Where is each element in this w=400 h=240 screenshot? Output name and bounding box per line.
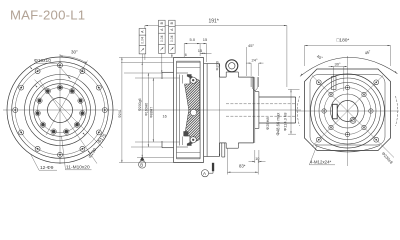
dim 10 xyxy=(249,150,266,163)
square plate outline xyxy=(305,69,391,151)
svg-text:Φ88H7: Φ88H7 xyxy=(149,107,153,118)
svg-text:15: 15 xyxy=(198,48,203,53)
hatched cross-section bottom xyxy=(185,110,200,145)
svg-text:6: 6 xyxy=(185,53,187,57)
svg-text:5.0: 5.0 xyxy=(190,37,196,42)
body right face xyxy=(253,77,255,110)
svg-text:45°: 45° xyxy=(364,49,372,56)
middle sectional view xyxy=(138,58,301,163)
seal wedge bottom xyxy=(187,141,192,145)
right view square flange xyxy=(296,56,399,166)
dim square 180 xyxy=(305,46,391,67)
bottom plug xyxy=(221,143,223,157)
bolt circle 12-phi9 xyxy=(15,65,105,155)
12-phi9 holes xyxy=(13,63,108,158)
dim 45deg xyxy=(246,47,248,76)
centerline horizontal xyxy=(3,109,118,111)
bearing ball top xyxy=(190,77,196,83)
svg-text:Φ48.66 max: Φ48.66 max xyxy=(276,112,281,136)
svg-text:30°: 30° xyxy=(335,61,341,66)
ring faces xyxy=(206,64,208,111)
diagonal centerline TL-BR xyxy=(312,76,394,158)
svg-text:15: 15 xyxy=(203,37,208,42)
small dims 5.0 / 15 top xyxy=(184,44,211,62)
4 corner holes xyxy=(316,80,378,142)
hub circle xyxy=(331,94,365,128)
svg-text:0.04: 0.04 xyxy=(170,35,174,42)
svg-text:24°: 24° xyxy=(252,58,258,63)
casting silhouette top arc xyxy=(300,57,398,76)
svg-text:Φ25H8: Φ25H8 xyxy=(265,116,270,130)
dim phi114.3 xyxy=(288,89,300,134)
outer circle phi230 xyxy=(7,57,113,163)
datum A symbol xyxy=(201,165,213,177)
dim 191* xyxy=(145,26,287,88)
30 deg dim arc xyxy=(60,56,87,63)
GDT frame mid xyxy=(159,20,166,53)
svg-text:B: B xyxy=(140,162,143,167)
shaft bore hidden lines xyxy=(226,103,296,105)
dim phi200 vertical xyxy=(219,64,221,157)
bottom boss xyxy=(226,147,238,149)
flange disc left faces xyxy=(173,58,175,111)
11-M10x20 holes xyxy=(35,85,85,135)
hatch zone left edge xyxy=(179,75,181,111)
GDT frame right xyxy=(169,20,175,53)
dim 83* xyxy=(227,149,258,175)
diagonal centerline BL-TR xyxy=(312,76,383,147)
pin hole 30deg xyxy=(332,75,337,92)
roller pin center xyxy=(190,109,196,115)
30 deg radial line xyxy=(46,61,88,136)
svg-text:Φ200g6: Φ200g6 xyxy=(138,98,142,111)
inner circle xyxy=(30,80,91,141)
shaft xyxy=(259,96,296,98)
phi230 side arc right dashed xyxy=(395,96,397,126)
body top xyxy=(219,76,226,78)
svg-text:Φ160H6: Φ160H6 xyxy=(144,103,148,116)
svg-text:Φ200: Φ200 xyxy=(216,61,220,70)
centerline vertical xyxy=(59,54,61,164)
tapped hole top xyxy=(250,77,252,87)
input cover step xyxy=(162,71,174,73)
phi230 side arc left dashed xyxy=(297,96,299,126)
svg-text:□180*: □180* xyxy=(337,38,350,44)
tapped hole hub xyxy=(350,117,356,123)
eyebolt boss xyxy=(225,72,227,77)
svg-text:Φ114.3 h8: Φ114.3 h8 xyxy=(283,112,288,131)
dim line phi175 diagonal xyxy=(35,80,104,148)
hub circle xyxy=(34,84,87,137)
bolt circle 11-M10 xyxy=(38,88,83,133)
label 45 right xyxy=(395,71,397,73)
dim 24deg xyxy=(246,63,264,76)
seal wedge top xyxy=(187,74,192,78)
inner contour xyxy=(310,75,385,146)
8 bolt holes xyxy=(322,85,373,136)
casting silhouette bottom arc xyxy=(315,145,380,152)
bolt circle 8 holes xyxy=(324,88,371,135)
bearing ball bottom xyxy=(190,137,196,143)
svg-text:A: A xyxy=(203,171,206,176)
datum B circle xyxy=(139,161,146,168)
flange step circle xyxy=(12,62,109,159)
svg-text:83*: 83* xyxy=(239,164,246,169)
hatched cross-section top xyxy=(185,76,200,111)
svg-text:Φ230c8: Φ230c8 xyxy=(381,151,395,165)
eye bolt xyxy=(226,60,238,72)
svg-text:191*: 191* xyxy=(209,18,219,24)
flange disc right faces xyxy=(199,61,201,110)
GDT leaders xyxy=(142,53,172,73)
svg-text:30°: 30° xyxy=(71,50,78,55)
svg-text:Φ241: Φ241 xyxy=(118,109,122,118)
svg-text:16: 16 xyxy=(163,115,167,119)
dim 30 xyxy=(329,67,348,92)
label 45 left xyxy=(301,74,303,76)
svg-text:45°: 45° xyxy=(248,43,254,48)
svg-text:10: 10 xyxy=(255,157,259,161)
left view flange xyxy=(3,54,118,164)
circle xyxy=(315,78,381,144)
centerline xyxy=(138,109,301,111)
dia dims left of section xyxy=(119,58,180,163)
svg-text:0.04: 0.04 xyxy=(141,37,145,44)
svg-text:4-M12x24*: 4-M12x24* xyxy=(310,160,332,165)
centerline vertical xyxy=(347,56,349,166)
inner bore lines xyxy=(177,72,189,74)
circle xyxy=(319,83,376,140)
seal block bottom left xyxy=(183,131,188,136)
step to pilot disc xyxy=(255,91,259,93)
bore circle xyxy=(48,98,73,123)
svg-text:45°: 45° xyxy=(316,54,324,61)
svg-text:MAF-200-L1: MAF-200-L1 xyxy=(10,8,85,23)
big circle phi160 xyxy=(311,74,385,148)
flange bolt hole sections xyxy=(177,62,201,64)
datum triangle at phi200g6 xyxy=(140,157,145,161)
GDT frame left xyxy=(139,29,146,54)
dim line phi230 diagonal xyxy=(40,81,97,164)
circle phi175 xyxy=(25,75,96,146)
keyway xyxy=(332,104,337,119)
flange disc top edges xyxy=(174,57,204,59)
bore xyxy=(337,101,358,122)
centerline horizontal xyxy=(296,110,399,112)
svg-text:0.04: 0.04 xyxy=(160,35,164,42)
